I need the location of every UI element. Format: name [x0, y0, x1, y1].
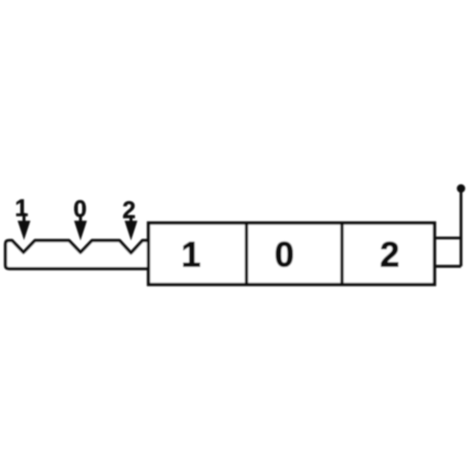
- arrow for cut 1: [18, 213, 31, 240]
- divider between cell 0 and cell 2: [340, 223, 343, 285]
- arrow for cut 2: [125, 215, 138, 241]
- key blade with three V-notches: [6, 241, 149, 269]
- arrow for cut 0: [74, 214, 87, 241]
- antenna line: [460, 189, 463, 266]
- right tab top line: [435, 237, 462, 240]
- code body box: [149, 223, 435, 285]
- svg-text:0: 0: [73, 196, 86, 223]
- right tab bottom line: [435, 265, 462, 268]
- svg-text:1: 1: [15, 195, 28, 222]
- svg-text:2: 2: [380, 235, 399, 274]
- divider between cell 1 and cell 0: [245, 223, 248, 285]
- svg-text:0: 0: [275, 235, 294, 274]
- svg-text:1: 1: [181, 235, 200, 274]
- antenna dot: [457, 184, 465, 192]
- svg-text:2: 2: [122, 197, 135, 224]
